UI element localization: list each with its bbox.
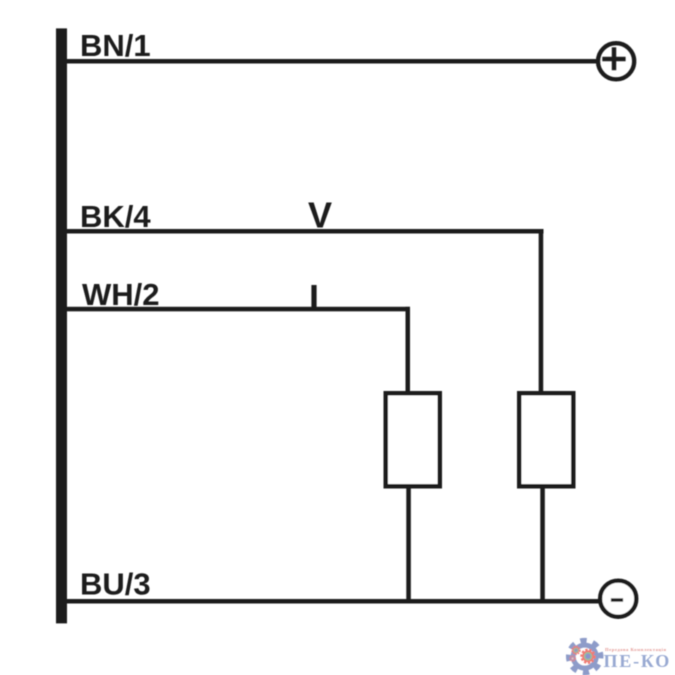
svg-text:WH/2: WH/2 xyxy=(82,277,160,312)
svg-text:BK/4: BK/4 xyxy=(80,199,151,234)
svg-text:V: V xyxy=(308,195,332,236)
svg-text:I: I xyxy=(309,277,319,318)
svg-text:ПЕ-КО: ПЕ-КО xyxy=(604,651,672,671)
svg-text:BN/1: BN/1 xyxy=(80,28,151,63)
svg-text:BU/3: BU/3 xyxy=(80,567,151,602)
